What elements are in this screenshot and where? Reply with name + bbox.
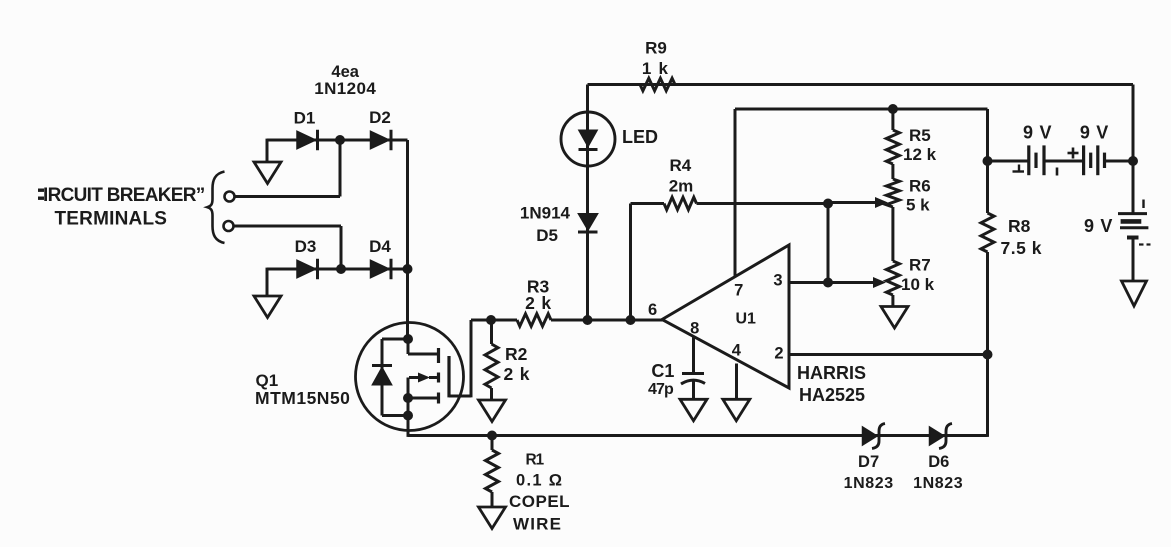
svg-text:3: 3 xyxy=(773,272,782,290)
svg-text:4: 4 xyxy=(732,342,742,360)
svg-text:R7: R7 xyxy=(909,256,931,275)
svg-text:COPEL: COPEL xyxy=(509,492,570,511)
svg-text:2 k: 2 k xyxy=(525,293,552,313)
svg-text:D4: D4 xyxy=(369,237,391,256)
svg-text:D2: D2 xyxy=(369,108,391,127)
svg-text:D1: D1 xyxy=(294,109,316,128)
svg-text:HARRIS: HARRIS xyxy=(797,363,866,383)
svg-text:1N823: 1N823 xyxy=(913,475,963,492)
svg-text:R5: R5 xyxy=(909,126,931,145)
svg-text:R2: R2 xyxy=(505,344,528,364)
svg-text:1 k: 1 k xyxy=(642,59,669,78)
svg-text:1N823: 1N823 xyxy=(844,475,894,492)
svg-text:10 k: 10 k xyxy=(901,275,935,294)
svg-text:9 V: 9 V xyxy=(1084,216,1113,236)
svg-text:5 k: 5 k xyxy=(906,195,930,214)
svg-text:7: 7 xyxy=(734,281,743,299)
svg-text:D7: D7 xyxy=(858,453,879,471)
svg-text:D3: D3 xyxy=(295,237,317,256)
svg-text:U1: U1 xyxy=(736,311,757,328)
svg-text:R1: R1 xyxy=(526,452,545,469)
svg-text:WIRE: WIRE xyxy=(513,515,562,534)
svg-text:47p: 47p xyxy=(648,381,674,398)
svg-text:1N914: 1N914 xyxy=(520,204,571,223)
svg-text:9 V: 9 V xyxy=(1023,123,1052,143)
svg-text:6: 6 xyxy=(648,301,657,319)
svg-text:R4: R4 xyxy=(670,156,692,175)
svg-text:7.5 k: 7.5 k xyxy=(1001,238,1042,258)
svg-text:LED: LED xyxy=(622,127,658,147)
svg-text:D6: D6 xyxy=(928,453,949,471)
svg-text:R9: R9 xyxy=(645,39,667,58)
svg-text:2m: 2m xyxy=(669,176,694,195)
svg-text:12 k: 12 k xyxy=(903,145,937,164)
svg-text:C1: C1 xyxy=(651,361,674,381)
svg-text:8: 8 xyxy=(690,319,699,337)
svg-text:HA2525: HA2525 xyxy=(799,385,865,405)
svg-text:0.1 Ω: 0.1 Ω xyxy=(516,472,563,490)
svg-text:D5: D5 xyxy=(536,226,558,245)
svg-text:9 V: 9 V xyxy=(1080,123,1109,143)
svg-text:1N1204: 1N1204 xyxy=(314,79,376,98)
svg-text:MTM15N50: MTM15N50 xyxy=(255,388,350,408)
svg-text:2: 2 xyxy=(774,345,783,363)
svg-text:2 k: 2 k xyxy=(504,364,531,384)
svg-text:R8: R8 xyxy=(1008,216,1031,236)
svg-text:R6: R6 xyxy=(909,177,931,196)
svg-text:TERMINALS: TERMINALS xyxy=(55,209,168,230)
svg-text:IRCUIT BREAKER”: IRCUIT BREAKER” xyxy=(43,185,205,206)
